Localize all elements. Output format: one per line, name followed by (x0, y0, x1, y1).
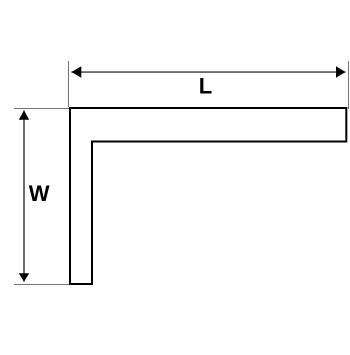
svg-text:W: W (29, 181, 50, 206)
svg-text:L: L (199, 74, 212, 99)
